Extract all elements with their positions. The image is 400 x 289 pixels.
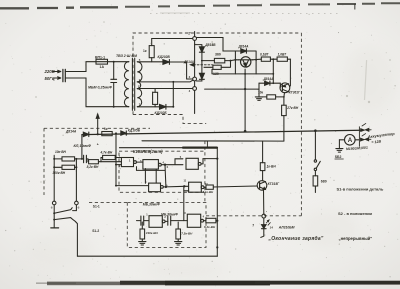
diode VD2 KD202B: [155, 104, 168, 115]
gate DD1.2: [143, 160, 165, 170]
svg-text:27к·ВН: 27к·ВН: [286, 106, 299, 110]
svg-text:5,1к·ВН: 5,1к·ВН: [203, 190, 215, 194]
wire bottom return: [77, 255, 217, 257]
svg-text:АЛ310БМ: АЛ310БМ: [278, 225, 295, 229]
node junction capacitor/primary bottom: [113, 106, 115, 108]
svg-text:1к: 1к: [143, 49, 147, 53]
wire DD1.4 out to DD2.1: [166, 185, 189, 188]
svg-text:МБ,30мкФ: МБ,30мкФ: [143, 203, 160, 207]
wire zener rail to VD6 node: [205, 88, 259, 90]
resistor R10 1k-VN: [260, 163, 276, 181]
svg-text:S1-1: S1-1: [93, 205, 100, 209]
svg-text:1к: 1к: [104, 127, 108, 131]
svg-text:8,2к·ВН: 8,2к·ВН: [87, 165, 99, 169]
resistor R19 base: [203, 185, 215, 194]
node junction DD1.4 output: [165, 186, 167, 188]
transistor Q3 KT315G: [257, 181, 280, 191]
svg-text:Д814А: Д814А: [238, 44, 250, 48]
svg-text:7,5к·ВН: 7,5к·ВН: [181, 232, 193, 236]
svg-text:S2 - в положении: S2 - в положении: [338, 211, 373, 216]
svg-text:МБМ 0,25мкФ: МБМ 0,25мкФ: [88, 86, 112, 90]
svg-text:ВП1-1: ВП1-1: [95, 55, 105, 59]
svg-text:300к·ВН: 300к·ВН: [53, 171, 66, 175]
wire secondary mid tap: [137, 80, 193, 82]
wire terminal 2 to bypass: [197, 38, 236, 52]
label battery: [346, 131, 396, 151]
svg-text:Д814А: Д814А: [183, 60, 195, 64]
wire R6 to Q2 collector: [289, 59, 292, 86]
node junction cap line: [81, 158, 83, 160]
resistor R9 1k bus: [102, 127, 112, 136]
terminal LED anode: [262, 214, 266, 218]
svg-text:КЛ,10мкФ: КЛ,10мкФ: [74, 144, 92, 148]
wire fuse to transformer primary: [108, 61, 129, 63]
switch S1-1: [51, 201, 100, 219]
node junction column R13: [75, 166, 77, 168]
switch S1-2: [51, 218, 100, 257]
node junction branch to oscillator: [183, 185, 185, 187]
resistor R13 300k-VN: [53, 165, 77, 175]
wire secondary top tap: [137, 61, 163, 63]
node junction bus Q1-riser: [244, 130, 247, 133]
wire middle post column: [75, 159, 77, 201]
wire secondary bottom tap: [137, 106, 159, 108]
node bus arrow feed: [96, 114, 99, 135]
svg-text:10к·ВН: 10к·ВН: [55, 150, 67, 154]
svg-text:1,0ВТ: 1,0ВТ: [278, 52, 288, 56]
resistor R16 330k: [140, 222, 158, 239]
pin marks DD1 inputs: [119, 156, 208, 188]
node junction feedback bottom: [115, 185, 117, 187]
node junction VD2 riser: [172, 106, 174, 108]
svg-text:0,1ВТ: 0,1ВТ: [260, 52, 270, 56]
node junction R3 R4 output: [230, 60, 232, 62]
resistor R8 27k: [282, 97, 299, 141]
enclosure dashed box: lower oscillator: [127, 141, 206, 248]
wire VD2 to riser: [166, 82, 173, 107]
connector X1 battery: [359, 123, 371, 146]
svg-text:1А: 1А: [100, 65, 105, 69]
transistor Q2 KT361G: [280, 83, 301, 95]
svg-text:6,2к·ВН: 6,2к·ВН: [204, 225, 216, 229]
wire secondary tap 12: [137, 88, 192, 90]
svg-text:„непрерывный": „непрерывный": [339, 236, 373, 241]
fuse F1 VP1-1 1A: [95, 55, 108, 69]
node mains input 220V 50Hz: [44, 69, 66, 82]
node junction bus battery branch: [314, 129, 317, 132]
node junction rail R12: [53, 158, 55, 160]
svg-text:ТВЗ 2·Ш·ВМ: ТВЗ 2·Ш·ВМ: [116, 54, 137, 58]
wire Q1 base riser: [244, 69, 246, 131]
pin marks DD2 oscillator: [146, 212, 204, 219]
terminal 2': [188, 32, 196, 41]
node junction R5 R6: [272, 58, 274, 60]
transistor Q1 power: [239, 57, 253, 67]
wire output column down: [164, 165, 167, 187]
svg-text:К155ЛЕ5(2шт): К155ЛЕ5(2шт): [133, 149, 163, 154]
wire return rail lower: [120, 141, 218, 148]
wire return rail upper: [142, 140, 284, 142]
node junction base riser crossing: [244, 88, 246, 90]
gate DD2.1: [184, 182, 204, 192]
diode VD8 KD105B: [121, 128, 141, 135]
resistor R17 7,5k: [176, 222, 193, 239]
switch S2 branch: [314, 132, 320, 176]
node junction oscillator out: [216, 220, 218, 222]
svg-text:Д814А: Д814А: [263, 77, 275, 81]
svg-text:КД202Б: КД202Б: [155, 111, 168, 115]
gate DD1.3: [186, 158, 217, 169]
transformer T1 TV3-2Sh-VM: [116, 54, 142, 110]
resistor R5 0,1: [260, 52, 277, 61]
diode VD7 D814A bus: [65, 129, 89, 136]
wire branch down to oscillator input: [183, 186, 185, 220]
zener VD3 D814V: [195, 43, 217, 61]
ammeter PA1: [339, 135, 358, 146]
node junction Q1 base: [244, 73, 246, 75]
svg-text:+: +: [97, 142, 99, 146]
gate DD1.1: [121, 158, 142, 167]
node junction feedback gate input: [115, 164, 117, 166]
node junction emitter R7: [283, 96, 285, 98]
capacitor C4 30uF: [168, 216, 188, 225]
svg-text:КД202В: КД202В: [158, 55, 171, 59]
node junction box crossing: [216, 246, 218, 248]
wire terminal rail: [194, 40, 196, 113]
resistor R4 120: [204, 61, 231, 76]
node junction bypass left: [234, 59, 236, 61]
svg-text:А: А: [348, 137, 353, 144]
svg-text:Д814В: Д814В: [204, 43, 216, 47]
svg-text:50Гц: 50Гц: [45, 76, 55, 81]
wire Q3 emitter to terminal: [263, 190, 265, 214]
zener VD4 D814A: [197, 61, 205, 81]
diode VD6 D814A: [259, 74, 280, 85]
ground R16: [139, 239, 146, 245]
node junction G3 out rail: [216, 158, 218, 160]
wire DD1.2 out to DD1.3: [165, 159, 183, 165]
svg-text:б: б: [51, 206, 53, 210]
svg-text:330к·ВН: 330к·ВН: [146, 231, 159, 235]
wire stub feedback to gate: [116, 164, 121, 166]
svg-text:14: 14: [270, 226, 274, 230]
label D814A with arrow: [183, 60, 213, 66]
wire feedback rail vertical: [216, 148, 218, 257]
resistor R2 1k lower: [153, 89, 158, 107]
gate DD1.4: [116, 169, 166, 192]
svg-text:КД105Б: КД105Б: [128, 128, 141, 132]
node junction bypass right: [255, 59, 257, 61]
wire R5 junction riser: [272, 59, 274, 74]
svg-text:S1-2: S1-2: [92, 229, 99, 233]
svg-text:SБ2: SБ2: [335, 155, 342, 159]
node junction riser base-bus: [272, 73, 274, 75]
svg-text:680: 680: [321, 180, 327, 184]
svg-text:10к: 10к: [258, 91, 264, 95]
wire Q1 to R5: [253, 58, 262, 61]
wire mains lower to transformer: [65, 78, 129, 107]
node junction mid tap: [172, 81, 174, 83]
capacitor C3 30uF: [137, 216, 150, 225]
resistor R3 360: [202, 52, 231, 63]
resistor R6 1,0: [277, 52, 290, 61]
svg-text:S1-в положении деталь: S1-в положении деталь: [337, 187, 384, 192]
diode VD1 KD202V: [158, 55, 171, 65]
wire feed to Q3: [262, 141, 264, 163]
enclosure dashed box: K155LE5 multivibrator: [119, 151, 205, 192]
ground regulator: [255, 83, 262, 100]
resistor R7 10k: [258, 91, 284, 99]
terminal 4: [193, 87, 197, 91]
switch SB2: [335, 140, 344, 159]
svg-text:КТ315Г: КТ315Г: [268, 182, 281, 186]
node junction column R12: [75, 158, 77, 160]
node junction DD1.2 output: [164, 164, 166, 166]
gate DD2.2: [149, 216, 168, 228]
svg-text:7: 7: [252, 224, 254, 228]
node junction fuse/capacitor: [113, 61, 115, 63]
resistor R14 8,2k-VN: [86, 159, 121, 169]
wire base node bus: [212, 69, 273, 74]
wire mains to fuse: [65, 62, 96, 72]
diode VD5 D814A bypass: [235, 44, 256, 74]
enclosure dashed box: power/regulator unit: [133, 33, 301, 216]
svg-text:2': 2': [188, 32, 191, 36]
capacitor C1 MBM 0,25uF: [88, 62, 117, 107]
svg-text:КТ361Г: КТ361Г: [289, 91, 301, 95]
ground R17: [175, 239, 182, 245]
wire node to Q1 emitter: [231, 59, 239, 62]
wire Q2 emitter: [283, 93, 286, 97]
wire R19 to Q3 base: [213, 186, 257, 187]
LED HL1 AL310BM: [261, 218, 271, 237]
node junction zener R3: [201, 60, 203, 62]
wire feedback node column: [115, 134, 117, 186]
svg-text:Д814А: Д814А: [65, 129, 77, 133]
node junction bus R9/VD8: [115, 132, 117, 134]
resistor R18 output: [204, 218, 218, 229]
svg-text:б: б: [78, 206, 80, 210]
svg-text:360: 360: [215, 52, 221, 56]
terminal 3: [193, 77, 197, 81]
gate DD2.3: [187, 214, 203, 227]
enclosure dashed box: control unit: [44, 128, 301, 216]
wire bus positive: [82, 130, 361, 134]
wire R1 to terminal 2: [152, 38, 193, 40]
wire bus drop to cap: [81, 135, 83, 159]
resistor R1 1k: [143, 39, 154, 62]
node junction rail R13: [53, 166, 55, 168]
svg-text:4,7к·ВН: 4,7к·ВН: [100, 151, 113, 155]
wire left rail control: [53, 156, 55, 202]
resistor R15 4,7k-VN: [100, 151, 122, 162]
resistor R11 680: [313, 176, 327, 193]
svg-text:1к·ВН: 1к·ВН: [267, 165, 277, 169]
wire loop lower input: [137, 167, 166, 171]
capacitor C2 10uF: [74, 142, 99, 162]
resistor R12 10k-VN: [54, 150, 83, 161]
svg-text:„Окончание заряда": „Окончание заряда": [268, 236, 324, 242]
wire VD1 to terminal: [169, 62, 192, 79]
